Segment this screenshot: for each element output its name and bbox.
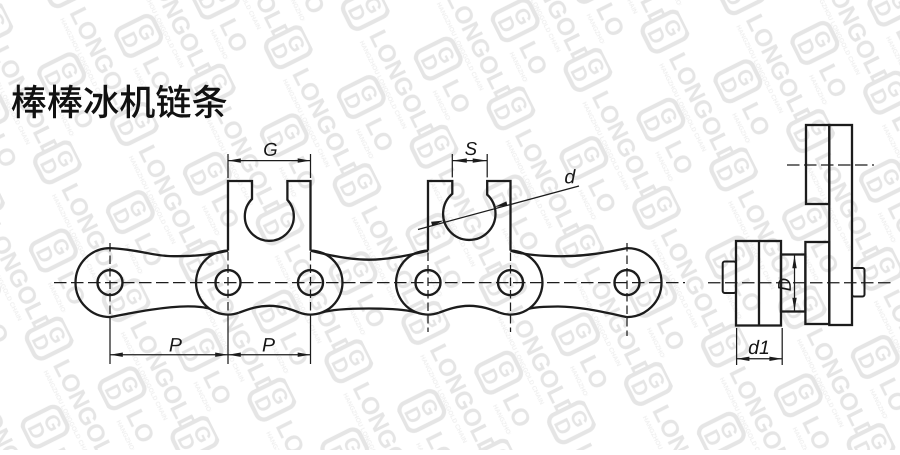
pin 5 vertical centerline: [510, 253, 512, 333]
pin 1 vertical centerline: [109, 243, 111, 322]
side view horizontal centerline: [54, 282, 685, 284]
link plate L2 (pins 3-4) bottom edge: [321, 309, 417, 313]
pin 6 vertical centerline: [626, 243, 628, 336]
dimension P (pitch) extension lines: [109, 322, 111, 364]
inner plate end arc at pin 4: [396, 251, 439, 315]
inner plate end arc at pin 2: [196, 251, 239, 315]
dimension d1: [736, 328, 738, 365]
dimension D: [794, 255, 796, 311]
end view right pin stub: [852, 268, 865, 297]
end view left pin stub: [723, 262, 736, 294]
link plate L1 (pins 1-2) outline: [76, 248, 111, 317]
end view middle roller (D): [781, 255, 805, 312]
title text 棒棒冰机链条: [12, 85, 227, 119]
pin 3 circle: [298, 270, 323, 295]
end view horizontal centerline: [708, 282, 892, 284]
inner plate bottom edge (pins 2-3): [239, 306, 300, 313]
inner plate end arc at pin 5: [500, 251, 543, 315]
pin 6 circle: [615, 270, 640, 295]
pin 2 circle: [216, 270, 241, 295]
link plate L3 (pins 5-6) outline: [627, 248, 662, 317]
dimension G: [227, 154, 229, 178]
end view attachment tall plate: [829, 125, 852, 325]
dimension P left segment: [110, 354, 228, 356]
pin 5 circle: [498, 270, 523, 295]
dimension P right segment: [228, 354, 311, 356]
link plate L2 (pins 3-4) top edge: [311, 251, 429, 260]
end view attachment clip block: [806, 125, 829, 204]
end view attachment centerline: [787, 164, 874, 166]
pin 3 vertical centerline: [310, 252, 312, 322]
dimension S: [451, 154, 453, 177]
pin 2 vertical centerline: [227, 252, 229, 322]
pin 4 vertical centerline: [427, 253, 429, 333]
end view right plate block: [805, 242, 829, 324]
pin 1 circle: [98, 270, 123, 295]
end view left plate-roller block: [736, 241, 781, 326]
attachment A2 (S type) outline: [428, 181, 511, 251]
inner plate end arc at pin 3: [300, 251, 343, 315]
dimension d leader line: [418, 186, 579, 230]
pin 4 circle: [416, 270, 441, 295]
attachment A1 (G type) outline: [228, 181, 311, 251]
inner plate bottom edge (pins 4-5): [439, 306, 500, 313]
